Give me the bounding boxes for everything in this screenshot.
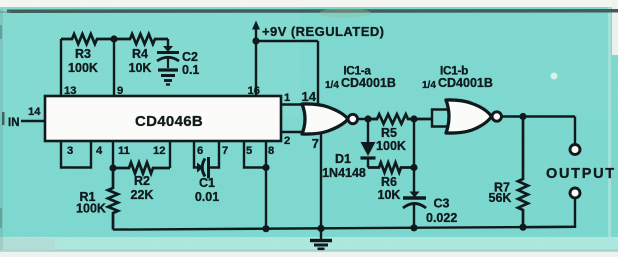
wire C3 bottom lead — [413, 204, 415, 228]
top-right white corner — [612, 0, 618, 55]
svg-text:C1: C1 — [199, 176, 215, 190]
node junction R3/R4/pin9 — [110, 35, 117, 42]
wire pins 6-7 loop left — [194, 141, 197, 168]
bottom light band — [0, 237, 618, 251]
node junction R7 / rail — [519, 224, 526, 231]
svg-text:OUTPUT: OUTPUT — [546, 166, 616, 182]
svg-text:100K: 100K — [376, 139, 406, 153]
wire pins 6-7 loop right — [209, 141, 220, 168]
ground (main) — [310, 228, 332, 248]
resistor R6 — [368, 163, 414, 173]
svg-text:R6: R6 — [381, 175, 397, 189]
svg-text:R2: R2 — [134, 174, 150, 188]
svg-text:14: 14 — [302, 89, 317, 104]
svg-text:0.01: 0.01 — [195, 190, 219, 204]
top smudge artifact — [319, 8, 371, 18]
svg-text:1N4148: 1N4148 — [322, 166, 366, 180]
svg-text:10K: 10K — [378, 188, 401, 202]
resistor R7 — [518, 117, 528, 228]
svg-text:R3: R3 — [75, 47, 91, 61]
wire pins 3-4 loop — [61, 141, 91, 168]
svg-text:13: 13 — [64, 85, 76, 97]
resistor R3 — [61, 34, 114, 44]
capacitor C1 — [197, 157, 209, 179]
svg-text:CD4046B: CD4046B — [135, 113, 203, 130]
svg-text:1/4: 1/4 — [422, 80, 436, 91]
power +9V arrow — [252, 21, 260, 98]
svg-text:+9V (REGULATED): +9V (REGULATED) — [262, 24, 384, 39]
svg-text:R4: R4 — [132, 47, 148, 61]
node junction gate-a output / D1 — [364, 115, 371, 122]
wire pin 11 stub — [112, 141, 114, 168]
wire pin 2 input — [281, 131, 307, 133]
op-amp gate IC1-b (NOR 1/4 CD4001B) — [446, 100, 501, 133]
wire gate-b input bar — [432, 110, 448, 127]
svg-text:9: 9 — [117, 85, 123, 97]
node junction +9V branch — [252, 37, 259, 44]
wire pin 12 stub — [169, 141, 171, 168]
svg-text:C3: C3 — [434, 197, 450, 211]
svg-text:12: 12 — [153, 145, 165, 157]
svg-text:3: 3 — [67, 145, 73, 157]
wire pin 8 to ground rail — [265, 141, 267, 229]
svg-text:1: 1 — [284, 92, 290, 104]
ground (C2) — [158, 70, 178, 85]
wire gate-b output — [501, 115, 575, 117]
resistor R2 — [113, 163, 170, 174]
resistor R5 — [368, 114, 433, 124]
IC CD4046B body — [45, 96, 281, 141]
svg-text:0.1: 0.1 — [182, 63, 199, 77]
svg-text:CD4001B: CD4001B — [438, 76, 493, 90]
svg-text:8: 8 — [268, 145, 274, 157]
left edge scan shadow — [0, 9, 3, 250]
bottom white strip — [0, 251, 618, 257]
wire C3 branch vertical — [413, 119, 415, 195]
wire pin 1 input — [281, 103, 307, 105]
node OUTPUT terminal top — [570, 145, 580, 155]
white speck artifact — [551, 73, 558, 80]
node junction gate-b output / R7 — [519, 113, 526, 120]
svg-text:22K: 22K — [131, 188, 154, 202]
node junction pin7 / rail — [317, 225, 324, 232]
svg-text:0.022: 0.022 — [426, 211, 457, 225]
svg-text:7: 7 — [312, 136, 319, 151]
node junction R6/C3 — [410, 164, 417, 171]
svg-text:16: 16 — [248, 85, 260, 97]
svg-text:10K: 10K — [129, 61, 152, 75]
node junction pin11/R1/R2 — [109, 164, 116, 171]
wire +9V branch horizontal — [256, 40, 318, 42]
capacitor C3 — [403, 192, 426, 209]
resistor R4 — [114, 34, 168, 44]
resistor R1 — [108, 168, 118, 230]
wire C2 top lead — [167, 39, 169, 49]
svg-text:4: 4 — [96, 145, 103, 157]
capacitor C2 — [157, 46, 179, 68]
diode D1 1N4148 — [361, 119, 376, 168]
wire IC1-a pin14 vertical — [317, 41, 319, 105]
svg-text:CD4001B: CD4001B — [341, 76, 396, 90]
bottom scan border mottle — [0, 250, 618, 253]
wire IC1-a pin7 to ground rail — [320, 134, 322, 229]
node junction R5/C3 branch — [410, 115, 417, 122]
svg-text:R5: R5 — [381, 126, 397, 140]
node junction pin8 / rail — [262, 225, 269, 232]
op-amp gate IC1-a (NOR 1/4 CD4001B) — [302, 104, 357, 134]
right crease streak — [608, 7, 611, 237]
svg-text:11: 11 — [118, 145, 130, 157]
wire pin13 lead vertical — [60, 39, 62, 97]
wire pins 5-8 loop — [244, 141, 266, 168]
svg-text:56K: 56K — [489, 191, 512, 205]
svg-text:100K: 100K — [76, 202, 106, 216]
svg-text:14: 14 — [28, 106, 41, 118]
svg-text:1/4: 1/4 — [325, 80, 339, 91]
svg-text:6: 6 — [197, 145, 203, 157]
wire ground rail — [113, 227, 575, 230]
wire IN to pin14 — [21, 120, 45, 122]
svg-text:D1: D1 — [335, 152, 351, 166]
wire pin9 lead vertical — [113, 39, 115, 97]
node OUTPUT terminal bottom — [570, 188, 580, 198]
svg-text:C2: C2 — [182, 50, 198, 64]
node junction pin5/pin8 — [262, 164, 269, 171]
svg-text:5: 5 — [246, 145, 252, 157]
svg-text:100K: 100K — [68, 61, 98, 75]
svg-text:IN: IN — [8, 117, 20, 129]
wire output bottom terminal to rail — [523, 198, 575, 227]
wire output top terminal lead — [574, 117, 576, 145]
node junction C3 / rail — [410, 224, 417, 231]
cyan mottle patches — [0, 7, 300, 117]
wire IC1-a output — [357, 118, 378, 120]
svg-text:2: 2 — [284, 135, 290, 147]
left edge scan tick — [2, 112, 5, 125]
svg-text:7: 7 — [222, 145, 228, 157]
top scan border line — [7, 9, 618, 13]
